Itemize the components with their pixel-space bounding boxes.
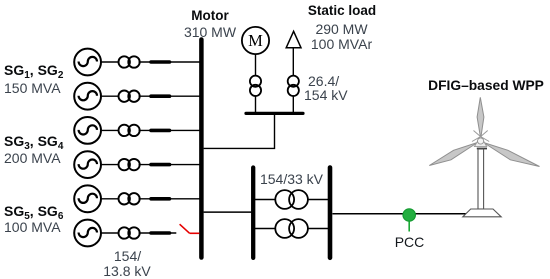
wind turbine hub <box>472 131 489 147</box>
transformer T5 <box>119 193 140 204</box>
label SG3 SG4 <box>4 134 63 148</box>
label SG1 SG2 <box>4 63 63 77</box>
label 26.4/154 kV <box>308 74 339 88</box>
label PCC <box>395 235 425 249</box>
wind turbine base <box>463 209 501 217</box>
wire generator row 1 to bus <box>101 61 200 63</box>
svg-text:M: M <box>248 31 263 50</box>
bus B154 main 154 kV busbar <box>199 40 204 258</box>
line impedance row 4 <box>151 163 170 167</box>
generator G2 <box>74 83 101 110</box>
wind turbine blade left <box>429 143 477 166</box>
label 154/33 kV <box>260 172 323 186</box>
label 310 MW <box>184 25 236 39</box>
label Motor <box>191 9 229 23</box>
wire main bus to 33 kV left bus <box>204 211 252 213</box>
node PCC (green) <box>403 209 415 232</box>
label SG5 SG6 <box>4 204 63 218</box>
wire generator row 2 to bus <box>101 95 200 97</box>
wire generator row 6 (open) <box>101 232 176 234</box>
generator G3 <box>74 117 101 144</box>
transformer T3 <box>119 125 140 136</box>
label 100 MVAr <box>311 37 372 51</box>
transformer T1 <box>119 56 140 67</box>
wind turbine blade right <box>484 143 540 167</box>
transformer T4 <box>119 159 140 170</box>
bus 33kV left <box>251 168 255 258</box>
wind turbine tower <box>478 149 484 209</box>
line impedance row 5 <box>151 197 170 201</box>
wind turbine nacelle <box>477 148 487 150</box>
bus 33kV right <box>328 168 333 258</box>
label 100 MVA <box>4 220 61 234</box>
wire transformer TA <box>255 199 329 201</box>
open switch SW6 (red) <box>180 224 200 233</box>
label 290 MW <box>315 22 367 36</box>
transformer T6 <box>119 227 140 238</box>
line impedance row 1 <box>151 60 170 64</box>
generator G1 <box>74 49 101 76</box>
bus load 26.4 kV busbar <box>246 112 303 115</box>
motor M feeder wire <box>255 54 257 113</box>
label 154/13.8 kV <box>114 249 141 263</box>
label Static load <box>308 4 376 18</box>
static load arrow symbol <box>286 31 301 47</box>
line impedance row 6 <box>151 231 170 235</box>
generator G6 <box>74 220 101 247</box>
generator G5 <box>74 185 101 212</box>
motor M <box>242 27 269 54</box>
generator G4 <box>74 151 101 178</box>
wire load bus to main bus <box>204 114 275 148</box>
line impedance row 3 <box>151 129 170 133</box>
transformer T2 <box>119 91 140 102</box>
transformer T-load <box>288 76 299 96</box>
static load arrow wire <box>292 48 294 113</box>
label 200 MVA <box>4 151 61 165</box>
wire 33 kV bus to WPP <box>333 213 467 215</box>
wire generator row 4 to bus <box>101 164 200 166</box>
transformer T-motor <box>250 76 261 96</box>
wind turbine blade up <box>477 97 484 138</box>
line impedance row 2 <box>151 94 170 98</box>
wire generator row 5 to bus <box>101 198 200 200</box>
label 150 MVA <box>4 81 61 95</box>
wire generator row 3 to bus <box>101 129 200 131</box>
transformer TB 154/33 kV <box>275 219 308 238</box>
wire transformer TB <box>255 228 329 230</box>
transformer TA 154/33 kV <box>275 190 308 209</box>
label DFIG-based WPP <box>428 79 544 93</box>
